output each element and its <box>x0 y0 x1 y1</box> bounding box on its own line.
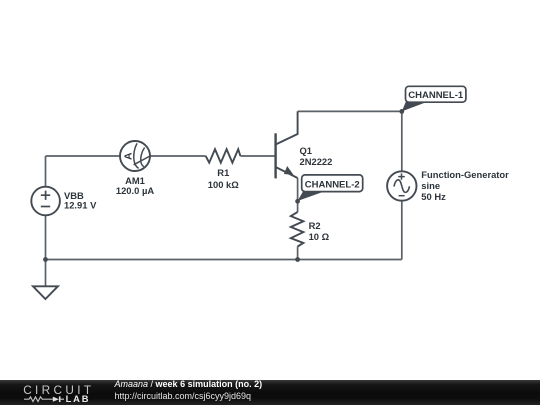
wire R1 to Q1 base <box>240 155 274 157</box>
resistor R2 <box>291 212 304 247</box>
svg-text:sine: sine <box>421 180 440 191</box>
svg-text:10 Ω: 10 Ω <box>309 231 330 242</box>
node dot ground junction <box>43 257 48 262</box>
label AM1 value <box>116 175 154 196</box>
ground <box>33 286 58 299</box>
svg-text:Function-Generator: Function-Generator <box>421 169 509 180</box>
svg-text:100 kΩ: 100 kΩ <box>208 179 239 190</box>
label R2 value <box>309 220 330 242</box>
wire emitter node to R2 <box>297 178 299 212</box>
CircuitLab logo resistor-diode line <box>22 380 92 405</box>
wire bottom rail <box>46 259 402 261</box>
svg-text:R2: R2 <box>309 220 321 231</box>
node CHANNEL-2 callout pointer <box>298 191 323 201</box>
wire left vertical from top corner to VBB <box>45 156 47 187</box>
wire base row: corner to ammeter <box>46 155 121 157</box>
wire ammeter to R1 <box>150 155 206 157</box>
wire top: collector to right corner <box>298 110 402 112</box>
wire R2 to bottom rail <box>297 247 299 260</box>
node dot top-right junction <box>399 109 404 114</box>
svg-text:12.91 V: 12.91 V <box>64 200 97 211</box>
node CHANNEL-1 label box <box>406 86 466 102</box>
footer title line <box>115 380 263 390</box>
voltage source VBB <box>31 187 60 216</box>
ammeter A glyph <box>122 152 134 160</box>
transistor Q1 emitter arrowhead <box>285 167 293 174</box>
svg-text:Q1: Q1 <box>300 145 313 156</box>
svg-text:50 Hz: 50 Hz <box>421 191 446 202</box>
wire VBB bottom to ground junction <box>45 215 47 286</box>
footer url line <box>115 392 252 402</box>
node CHANNEL-2 label box <box>302 175 363 192</box>
svg-text:CHANNEL-2: CHANNEL-2 <box>305 179 360 190</box>
wire right vertical: corner to function generator top <box>401 111 403 171</box>
svg-text:CHANNEL-1: CHANNEL-1 <box>408 90 464 101</box>
wire function generator bottom to bottom rail <box>401 201 403 260</box>
transistor Q1 <box>276 111 298 178</box>
function generator V1 <box>387 171 416 200</box>
node dot emitter junction <box>295 199 300 204</box>
resistor R1 <box>206 149 241 163</box>
svg-text:R1: R1 <box>217 167 229 178</box>
svg-text:120.0 µA: 120.0 µA <box>116 185 154 196</box>
CircuitLab logo LAB <box>66 394 91 404</box>
node CHANNEL-1 callout pointer <box>402 100 426 112</box>
svg-text:A: A <box>122 152 134 160</box>
label R1 value <box>208 167 239 190</box>
footer bar <box>0 380 540 405</box>
label function generator <box>421 169 509 202</box>
svg-text:2N2222: 2N2222 <box>300 156 333 167</box>
label Q1 value <box>300 145 333 167</box>
label VBB value <box>64 190 97 211</box>
ammeter AM1 <box>120 141 150 171</box>
node dot R2 bottom junction <box>295 257 300 262</box>
CircuitLab logo wordmark CIRCUIT <box>23 384 94 396</box>
